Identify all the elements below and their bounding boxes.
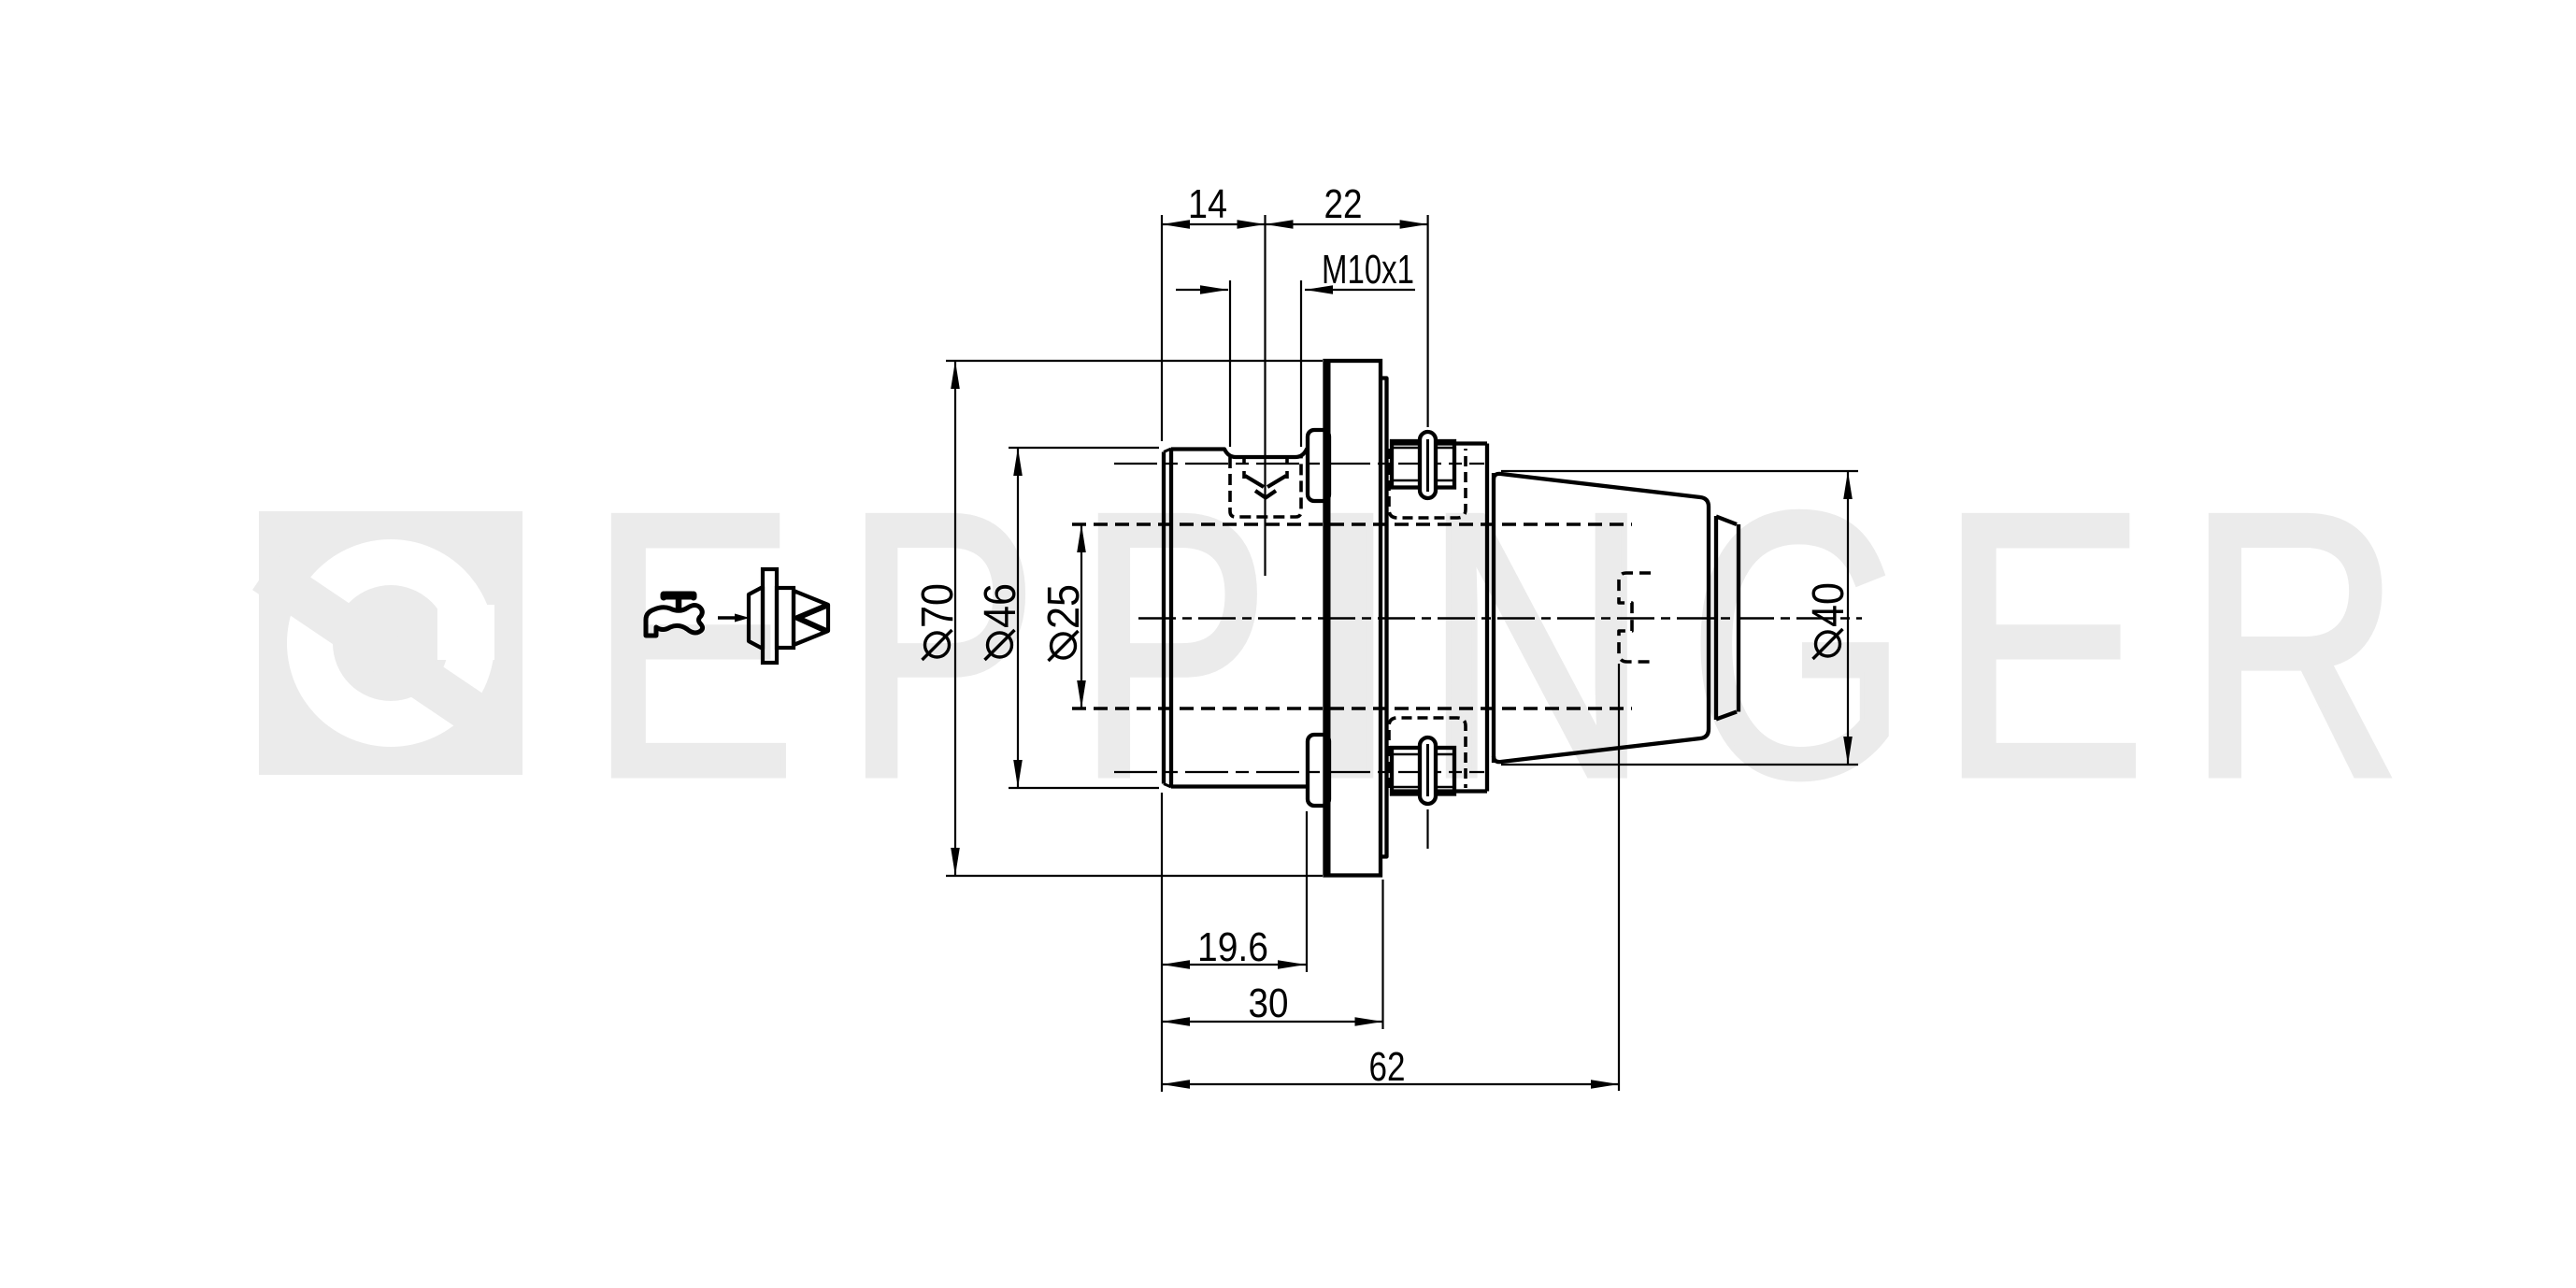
svg-text:E: E <box>1939 436 2146 855</box>
svg-text:14: 14 <box>1188 181 1227 227</box>
svg-text:46: 46 <box>976 583 1025 628</box>
svg-text:19.6: 19.6 <box>1197 924 1268 970</box>
svg-text:P: P <box>844 436 1038 855</box>
svg-text:70: 70 <box>913 583 963 628</box>
svg-text:E: E <box>588 436 796 855</box>
svg-text:P: P <box>1077 436 1269 855</box>
svg-text:G: G <box>1689 436 1908 855</box>
svg-text:62: 62 <box>1369 1044 1406 1090</box>
svg-text:M10x1: M10x1 <box>1322 247 1414 293</box>
svg-text:22: 22 <box>1324 181 1363 227</box>
svg-text:30: 30 <box>1249 980 1289 1026</box>
svg-text:R: R <box>2187 435 2402 854</box>
svg-text:25: 25 <box>1039 584 1089 629</box>
svg-text:40: 40 <box>1804 582 1853 627</box>
